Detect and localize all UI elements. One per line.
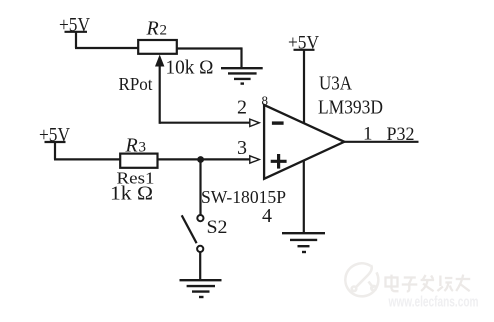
power +5V (top-left, feeds R2) (59, 14, 90, 48)
pin 2 label (237, 97, 247, 119)
svg-text:3: 3 (139, 140, 147, 156)
svg-text:P32: P32 (387, 124, 415, 145)
svg-text:R: R (125, 135, 138, 157)
label R2 (146, 18, 168, 40)
wire R2 right pin to ground (177, 47, 242, 68)
svg-text:S2: S2 (207, 217, 228, 238)
label Res1 (117, 169, 155, 188)
watermark logo circle (faint) (345, 263, 378, 296)
svg-text:1: 1 (363, 124, 373, 145)
ground (below U3A, pin 4) (282, 233, 325, 252)
ground (right of R2) (221, 68, 263, 83)
non-inverting input plus sign (271, 154, 287, 169)
switch S2 lower contact (197, 246, 203, 252)
label R3 (125, 135, 147, 157)
svg-text:3: 3 (237, 137, 247, 159)
svg-text:R: R (146, 18, 159, 40)
svg-text:8: 8 (262, 93, 269, 108)
label RPot (119, 74, 153, 94)
svg-text:U3A: U3A (319, 73, 352, 95)
resistor R3 (Res1 1k) body (120, 154, 157, 168)
wire +5V to R3 left pin (54, 158, 121, 160)
svg-text:LM393D: LM393D (318, 97, 383, 119)
pin 8 label (262, 93, 269, 108)
svg-text:4: 4 (262, 205, 272, 227)
watermark url text (faint) (388, 294, 479, 310)
wire switch S2 to ground (199, 252, 201, 280)
pin 2 input arrow (250, 119, 259, 126)
value label 1k Ohm (110, 183, 153, 205)
op-amp U3A LM393D comparator body (264, 105, 344, 179)
svg-text:SW-18015P: SW-18015P (201, 187, 286, 207)
switch S2 upper contact (197, 215, 203, 221)
wire wiper to pin 2 of U3A (160, 122, 250, 124)
switch S2 blade (182, 215, 197, 243)
potentiometer wiper arrow of R2 (155, 55, 164, 124)
power +5V (supply pin 8 of U3A) (288, 33, 319, 54)
pin 3 label (237, 137, 247, 159)
wire +5V supply to top edge of U3A (303, 50, 305, 124)
power +5V (left, feeds R3) (39, 124, 70, 159)
svg-text:RPot: RPot (119, 74, 153, 94)
wire node A down to switch S2 (199, 160, 201, 215)
svg-text:2: 2 (237, 97, 247, 119)
label S2 (207, 217, 228, 238)
net label P32 (387, 124, 415, 145)
svg-text:www.elecfans.com: www.elecfans.com (388, 294, 479, 310)
wire R3 right pin to node A and pin 3 of U3A (158, 158, 251, 160)
ground (below switch S2) (180, 280, 222, 297)
pin 3 input arrow (250, 156, 259, 163)
node A junction dot (197, 156, 204, 163)
label U3A (319, 73, 352, 95)
pin 1 label (363, 124, 373, 145)
label LM393D (318, 97, 383, 119)
pin 4 label (262, 205, 272, 227)
watermark text (faint) (386, 275, 471, 292)
inverting input minus sign (272, 121, 284, 124)
wire pin 4 of U3A to ground (303, 160, 305, 233)
svg-text:10k Ω: 10k Ω (166, 57, 214, 79)
svg-text:2: 2 (160, 23, 168, 39)
svg-text:1k Ω: 1k Ω (110, 183, 153, 205)
wire U3A output pin 1 to P32 (344, 141, 419, 143)
value label 10k Ohm (166, 57, 214, 79)
resistor R2 (potentiometer RPot 10k) body (138, 40, 177, 54)
wire +5V to R2 left pin (75, 47, 139, 49)
label SW-18015P (201, 187, 286, 207)
